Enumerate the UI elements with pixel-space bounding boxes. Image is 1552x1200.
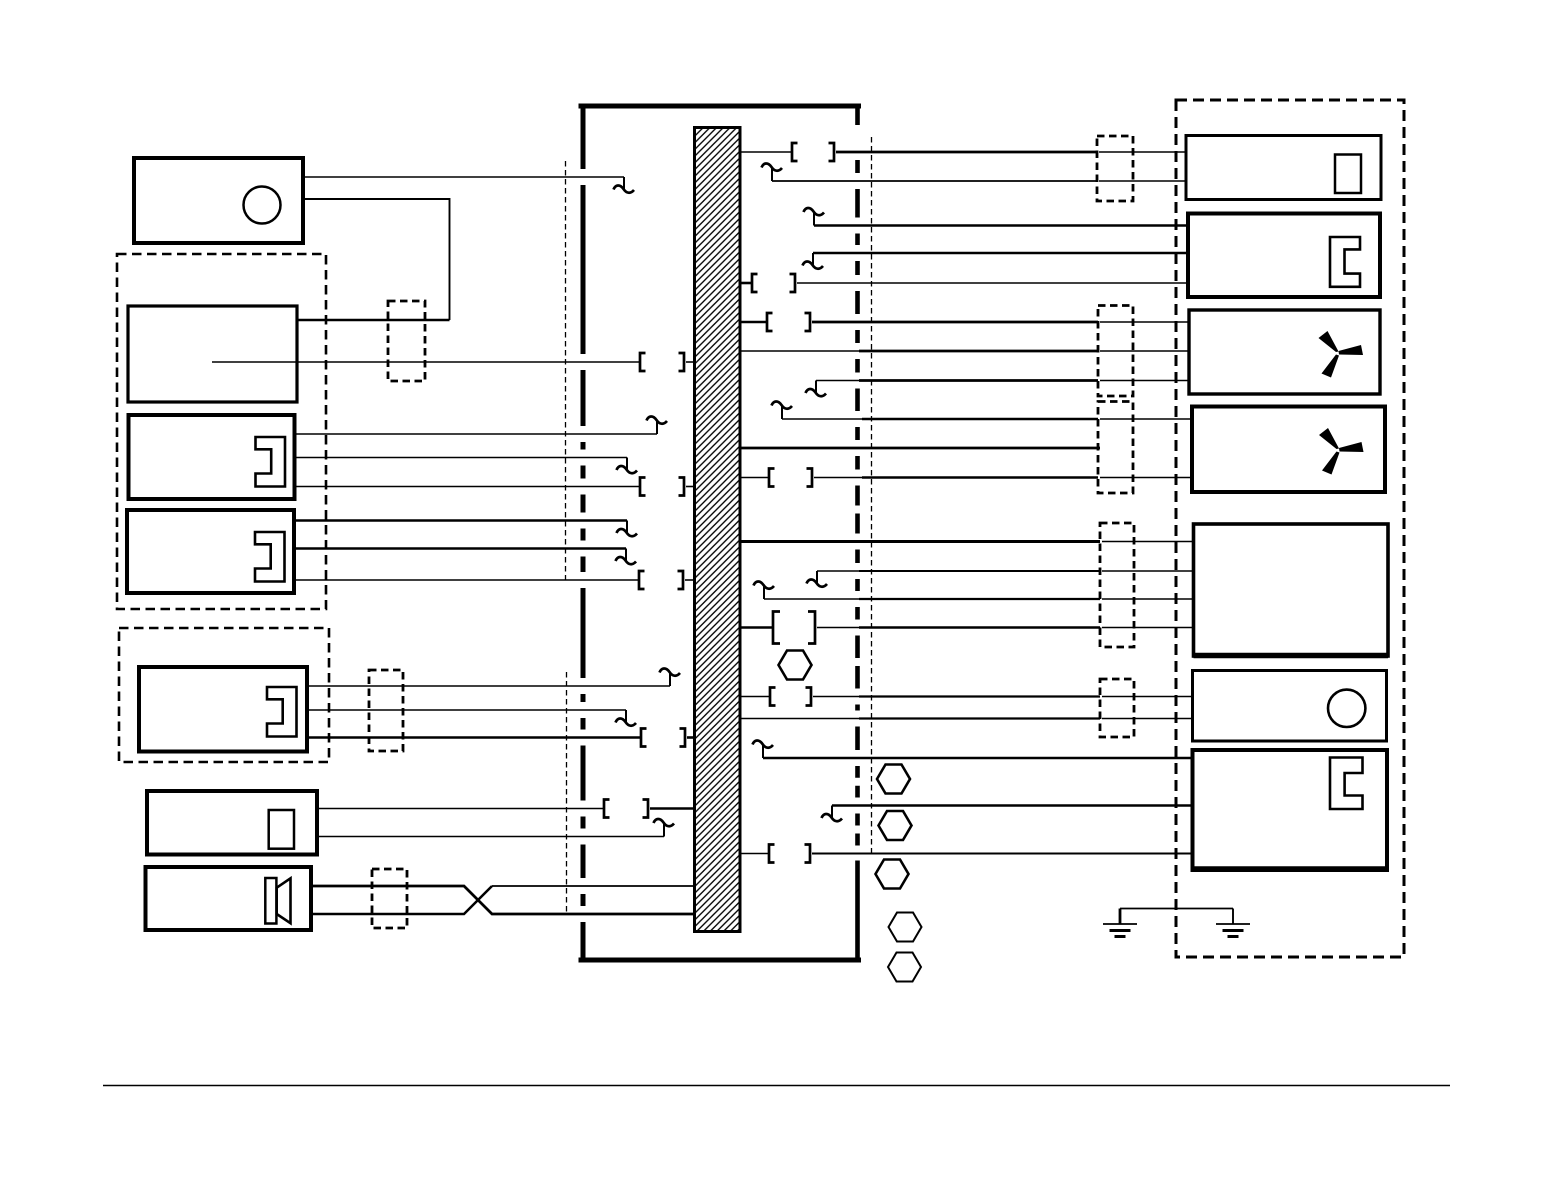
component box R1 (relay) bbox=[1186, 136, 1381, 200]
wire to R2 pin1 bbox=[814, 224, 1188, 227]
control module U1 right border (dash pattern with wire gaps) bbox=[855, 104, 860, 961]
connector icon of R7 bbox=[1330, 758, 1363, 810]
hexagon splice marker H6 bbox=[888, 953, 921, 982]
wire to R5 pin4 through C7 bbox=[859, 626, 1100, 629]
wire to R2 pin3 bbox=[797, 282, 1188, 284]
wire B4 pin1 through C2 to U1 bbox=[307, 685, 670, 687]
wire B3 pin3 to U1 bbox=[294, 579, 639, 581]
component box R4 (fan motor) bbox=[1192, 407, 1385, 493]
wire C7 to R5 pin4 bbox=[1102, 627, 1194, 629]
dashed harness group box G1 (left sensors) bbox=[117, 254, 326, 609]
wire B2 pin3 to U1 bbox=[295, 486, 641, 488]
wire U1 to R5 pin4 stub bbox=[740, 626, 773, 629]
wire B4 pin2 through C2 to U1 bbox=[307, 709, 626, 711]
wire C8 to R6 pin2 bbox=[1102, 718, 1193, 720]
ground symbol G-left bbox=[1103, 924, 1137, 937]
wire B6 pin2 after crossing to U1 bbox=[492, 885, 695, 887]
wire U1 to R4 pin2 stub bbox=[740, 477, 769, 479]
continuation squiggle on B2 pin1 wire bbox=[647, 416, 668, 434]
wire C6 to R4 pin2 bbox=[1100, 477, 1192, 479]
wire stub B4 pin3 to pin bar bbox=[687, 736, 695, 739]
connector icon of B3 bbox=[255, 532, 285, 582]
ground bus right drop bbox=[1232, 909, 1234, 925]
wire BA pin2 down to B1 feed bbox=[303, 199, 450, 320]
terminal pair on R4 pin2 wire bbox=[769, 469, 812, 487]
continuation squiggle on B3 pin1 wire bbox=[617, 521, 638, 537]
wire C5 to R3 pin3 bbox=[1100, 380, 1189, 382]
wire stub B1 pin2 to pin bar bbox=[686, 361, 695, 363]
component box B5 (relay) bbox=[147, 791, 317, 855]
wire U1 to R1 pin1 through C4 bbox=[836, 151, 1097, 154]
wire U1 to R6 pin1 stub bbox=[740, 696, 770, 698]
inline connector C7 bbox=[1100, 523, 1134, 647]
wire to R5 pin2 through C7 bbox=[859, 570, 1100, 572]
dashed harness group box G2 (left switch) bbox=[119, 628, 329, 762]
control module U1 left border (solid with wire gaps) bbox=[581, 104, 586, 963]
continuation squiggle on R5 pin3 wire bbox=[754, 581, 775, 599]
wire C7 to R5 pin1 bbox=[1102, 541, 1194, 543]
continuation squiggle on R3 pin3 wire bbox=[806, 381, 827, 397]
page footer rule bbox=[103, 1085, 1450, 1087]
wire to R5 pin4 inner segment bbox=[817, 627, 859, 629]
inline connector C4 bbox=[1097, 136, 1133, 201]
wire U1 to R3 pin2 inner segment bbox=[740, 350, 859, 352]
terminal pair on B2 pin3 wire bbox=[640, 478, 684, 496]
fine dashed harness boundary line left lower bbox=[566, 672, 568, 913]
wire to R1 pin2 through C4 bbox=[772, 180, 1097, 182]
wire B5 pin1 terminal to pin bar bbox=[650, 807, 695, 810]
wire to R3 pin2 through C5 bbox=[859, 350, 1098, 353]
connector icon of R2 bbox=[1330, 237, 1360, 287]
wire C5 to R3 pin1 bbox=[1100, 321, 1189, 323]
wire to R3 pin3 inner segment bbox=[816, 380, 859, 382]
continuation squiggle on R5 pin2 wire bbox=[807, 571, 828, 587]
wire BA pin1 to U1 bbox=[303, 176, 624, 178]
hexagon splice marker H5 bbox=[889, 913, 922, 942]
wire to R7 pin3 bbox=[812, 853, 1193, 855]
wire U1 to R5 pin1 through C7 bbox=[740, 540, 1100, 543]
wire to R2 pin2 bbox=[813, 252, 1188, 255]
thick bottom edge of R7 bbox=[1193, 866, 1388, 872]
wire B5 pin2 to U1 bbox=[317, 836, 664, 838]
wire B4 pin3 through C2 to U1 bbox=[307, 736, 641, 739]
hexagon splice marker H1 inside U1 bbox=[779, 651, 812, 680]
tall terminal pair on R5 pin4 wire bbox=[773, 612, 815, 644]
fine dashed harness boundary line right bbox=[871, 137, 873, 855]
wire to R4 pin1 inner segment bbox=[782, 418, 862, 420]
wire B1 pin2 through C1 to U1 bbox=[212, 361, 640, 363]
connector icon of B4 bbox=[267, 687, 297, 737]
wire U1 to R1 pin1 segment A bbox=[740, 151, 792, 153]
wire to R6 pin1 through C8 bbox=[859, 695, 1100, 697]
inline connector C3 bbox=[372, 869, 407, 928]
fine dashed harness boundary line left upper bbox=[565, 161, 567, 581]
wire U1 ending inside C6 bbox=[740, 447, 1100, 450]
wire B3 pin2 to U1 bbox=[294, 547, 626, 550]
fan icon of R3 bbox=[1319, 331, 1364, 378]
component box R6 (lamp) bbox=[1193, 671, 1387, 742]
continuation squiggle on B4 pin2 wire bbox=[616, 710, 637, 726]
wire B6 pin1 through C3 crossing to U1 bbox=[311, 886, 695, 914]
component box R2 (actuator with connector icon) bbox=[1188, 214, 1380, 298]
ground symbol G-right bbox=[1216, 924, 1250, 937]
thick bottom edge of R5 bbox=[1194, 653, 1389, 659]
wire stub B3 pin3 to pin bar bbox=[685, 579, 695, 581]
wire B3 pin1 to U1 bbox=[294, 519, 627, 522]
hexagon splice marker H3 bbox=[879, 811, 912, 840]
continuation squiggle on B5 pin2 wire bbox=[654, 819, 675, 837]
wire to R4 pin2 through C6 bbox=[862, 476, 1098, 479]
wire C7 to R5 pin3 bbox=[1102, 598, 1194, 600]
wire to R6 pin2 through C8 bbox=[859, 717, 1100, 719]
wire C6 to R4 pin1 bbox=[1100, 418, 1192, 420]
terminal pair on R6 pin1 wire bbox=[770, 688, 811, 706]
continuation squiggle on B4 pin1 wire bbox=[660, 668, 681, 686]
wire C7 to R5 pin2 bbox=[1102, 570, 1194, 572]
relay contact icon of R1 bbox=[1335, 155, 1361, 194]
inline connector C5 bbox=[1098, 306, 1133, 397]
control module U1 outline bottom edge bbox=[579, 958, 862, 963]
wire B2 pin1 to U1 bbox=[295, 433, 658, 435]
wire C4 to R1 pin2 bbox=[1099, 180, 1186, 182]
wire to R3 pin1 through C5 bbox=[812, 321, 1098, 324]
hexagon splice marker H4 bbox=[876, 860, 909, 889]
inline connector C8 bbox=[1100, 679, 1134, 737]
wire C5 to R3 pin2 bbox=[1100, 350, 1189, 352]
lamp circle icon of R6 bbox=[1328, 690, 1365, 727]
wire U1 to R6 pin2 inner segment bbox=[740, 718, 859, 720]
continuation squiggle on R2 pin1 wire bbox=[804, 208, 825, 226]
terminal pair on R3 pin1 wire bbox=[767, 313, 810, 331]
continuation squiggle on B2 pin2 wire bbox=[617, 458, 638, 474]
continuation squiggle on BA pin1 wire bbox=[614, 177, 635, 193]
wire C4 to R1 pin1 bbox=[1099, 151, 1186, 153]
terminal pair on B5 pin1 wire bbox=[604, 800, 648, 818]
wire C8 to R6 pin1 bbox=[1102, 696, 1193, 698]
terminal pair on R7 pin3 wire bbox=[769, 845, 810, 863]
wire B2 pin2 to U1 bbox=[295, 457, 628, 459]
terminal pair on B4 pin3 wire bbox=[641, 729, 685, 747]
continuation squiggle on R7 pin2 wire bbox=[822, 806, 843, 822]
component box B2 (sensor with connector icon) bbox=[129, 415, 295, 499]
wire B6 pin2 through C3 crossing bbox=[311, 886, 492, 914]
component box R7 (actuator with connector icon) bbox=[1193, 750, 1388, 870]
continuation squiggle on R2 pin2 wire bbox=[803, 253, 824, 269]
control module U1 outline top edge bbox=[579, 104, 862, 109]
hexagon splice marker H2 bbox=[877, 765, 910, 794]
inline connector C1 bbox=[388, 301, 425, 381]
component box B4 (switch with connector icon) bbox=[139, 667, 307, 752]
terminal pair on R1 pin1 wire bbox=[792, 143, 834, 161]
speaker icon of B6 bbox=[265, 878, 290, 924]
wire to R5 pin2 inner segment bbox=[817, 570, 859, 572]
wire to R4 pin1 through C6 bbox=[862, 418, 1098, 421]
wire to R5 pin3 through C7 bbox=[859, 598, 1100, 600]
inline connector C6 bbox=[1098, 402, 1133, 494]
component box R3 (fan motor) bbox=[1189, 310, 1380, 394]
ground bus left drop wire bbox=[1119, 909, 1122, 925]
component box B3 (sensor with connector icon) bbox=[127, 510, 294, 593]
inline connector C2 bbox=[369, 670, 403, 751]
continuation squiggle on R7 pin1 wire bbox=[753, 740, 774, 758]
wire to R4 pin2 inner segment bbox=[814, 477, 862, 479]
wire stub B2 pin3 to pin bar bbox=[686, 486, 695, 488]
component box B1 (sensor) bbox=[128, 306, 297, 402]
component box BA (control unit with round knob) bbox=[134, 158, 303, 243]
wire to R3 pin3 through C5 bbox=[859, 379, 1098, 382]
ground bus horizontal wire bbox=[1120, 908, 1233, 910]
wire to R5 pin3 inner segment bbox=[764, 598, 859, 600]
continuation squiggle on B3 pin2 wire bbox=[616, 549, 637, 565]
wire to R6 pin1 inner segment bbox=[813, 696, 859, 698]
component box B6 (speaker) bbox=[146, 867, 312, 930]
wire B1 pin1 through C1 bbox=[297, 319, 450, 322]
relay contact icon of B5 bbox=[269, 810, 294, 849]
terminal pair on B1 pin2 wire bbox=[640, 353, 684, 371]
connector pin-row bar inside U1 (hatched) bbox=[695, 128, 741, 932]
component box R5 (module) bbox=[1194, 524, 1389, 656]
wire U1 to R7 pin3 stub bbox=[740, 853, 769, 855]
fan icon of R4 bbox=[1319, 428, 1364, 475]
terminal pair on B3 pin3 wire bbox=[639, 571, 683, 589]
terminal pair on R2 pin3 wire bbox=[752, 274, 795, 292]
wire to R7 pin2 bbox=[832, 804, 1193, 807]
indicator circle on BA bbox=[244, 187, 281, 224]
wire to R7 pin1 bbox=[763, 757, 1193, 760]
continuation squiggle on R1 pin2 wire bbox=[762, 163, 783, 181]
connector icon of B2 bbox=[256, 437, 286, 487]
wire U1 to R2 pin3 stub bbox=[740, 282, 752, 285]
dashed harness group box G3 (right actuators) bbox=[1176, 100, 1404, 957]
continuation squiggle on R4 pin1 wire bbox=[772, 401, 793, 419]
wire U1 to R3 pin1 stub bbox=[740, 321, 767, 324]
wire B5 pin1 to U1 bbox=[317, 808, 604, 810]
